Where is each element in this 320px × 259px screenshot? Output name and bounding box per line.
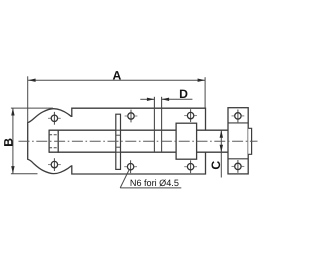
svg-text:B: B <box>1 138 15 147</box>
svg-text:A: A <box>112 68 121 82</box>
svg-text:D: D <box>179 87 188 101</box>
svg-text:C: C <box>209 161 223 170</box>
svg-text:N6 fori Ø4.5: N6 fori Ø4.5 <box>130 178 179 188</box>
